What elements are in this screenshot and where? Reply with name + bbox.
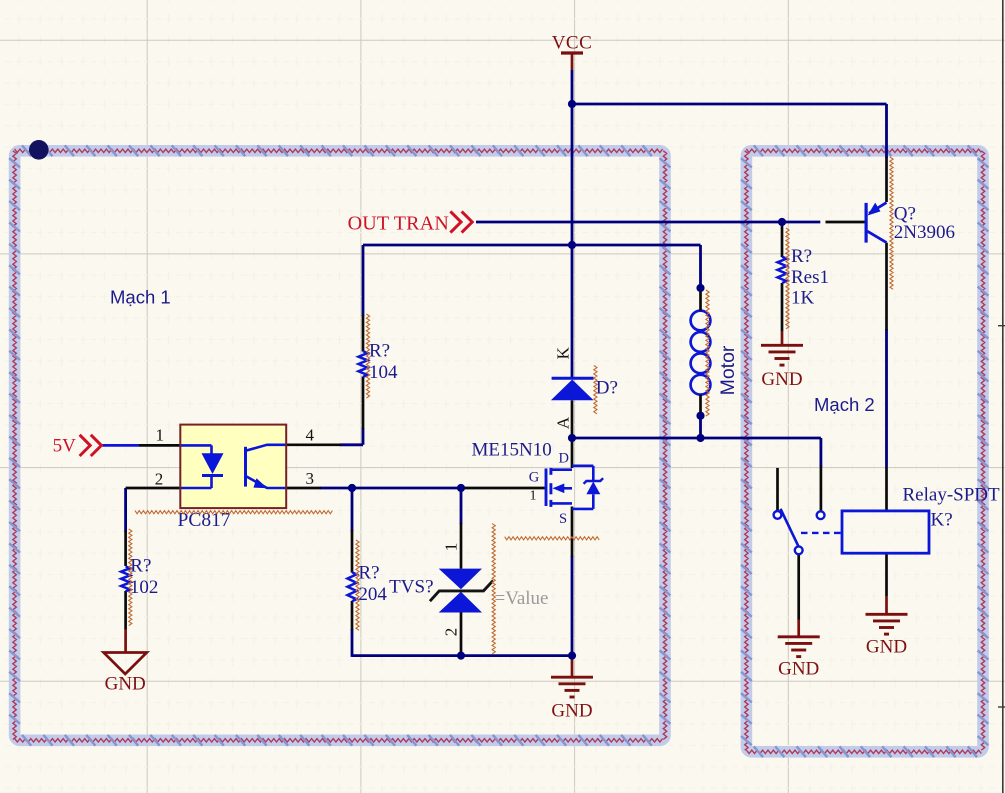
svg-text:D?: D? <box>596 378 618 399</box>
svg-text:R?: R? <box>791 246 812 267</box>
svg-text:2: 2 <box>442 628 461 637</box>
svg-text:GND: GND <box>761 369 802 390</box>
svg-text:Mạch 1: Mạch 1 <box>110 286 171 307</box>
svg-text:GND: GND <box>778 659 819 680</box>
svg-text:GND: GND <box>866 637 907 658</box>
svg-text:2: 2 <box>155 470 164 489</box>
svg-text:204: 204 <box>358 584 387 605</box>
svg-text:GND: GND <box>105 674 146 695</box>
svg-text:2N3906: 2N3906 <box>894 222 955 243</box>
svg-text:Mạch 2: Mạch 2 <box>814 394 875 415</box>
svg-text:GND: GND <box>551 701 592 722</box>
svg-text:A: A <box>553 416 572 429</box>
svg-text:K?: K? <box>931 510 953 531</box>
svg-text:4: 4 <box>305 426 314 445</box>
svg-text:5V: 5V <box>53 435 77 456</box>
svg-text:1: 1 <box>442 543 461 552</box>
svg-text:R?: R? <box>369 341 390 362</box>
svg-text:S: S <box>559 511 567 527</box>
svg-text:Relay-SPDT: Relay-SPDT <box>903 485 1001 506</box>
svg-text:=Value: =Value <box>495 588 549 609</box>
svg-text:D: D <box>558 451 568 467</box>
svg-text:R?: R? <box>130 555 151 576</box>
svg-text:ME15N10: ME15N10 <box>472 440 552 461</box>
svg-text:K: K <box>553 346 572 359</box>
svg-text:102: 102 <box>130 577 159 598</box>
svg-text:1K: 1K <box>791 288 815 309</box>
svg-text:104: 104 <box>369 362 398 383</box>
svg-text:R?: R? <box>358 563 379 584</box>
svg-text:1: 1 <box>156 425 165 444</box>
svg-text:G: G <box>529 470 540 486</box>
svg-text:3: 3 <box>305 469 314 488</box>
svg-text:VCC: VCC <box>552 33 593 54</box>
svg-text:TVS?: TVS? <box>389 577 433 598</box>
svg-text:OUT TRAN: OUT TRAN <box>348 213 449 235</box>
svg-text:Motor: Motor <box>717 345 739 395</box>
svg-text:Res1: Res1 <box>791 267 829 288</box>
svg-text:1: 1 <box>530 489 537 504</box>
